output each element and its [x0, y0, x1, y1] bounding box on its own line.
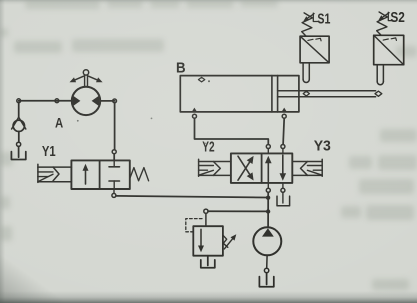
Y1 left box flow arrow [85, 168, 87, 184]
relief valve pilot port [204, 209, 208, 213]
cylinder vent diamond [198, 77, 204, 82]
node Y1 top port [112, 150, 116, 154]
Y1 right box blocked port top [113, 160, 115, 166]
node Y1 bottom port [112, 193, 116, 197]
tank symbol [277, 196, 290, 206]
wire [266, 273, 268, 285]
port node [266, 188, 270, 192]
wire pump riser [267, 192, 269, 227]
node [17, 142, 21, 146]
piston rod [278, 90, 376, 92]
check valve [12, 117, 19, 129]
wire [114, 103, 116, 150]
solenoid Y3 [321, 159, 323, 176]
junction [266, 196, 270, 200]
wire [207, 256, 209, 266]
right box up arrow [267, 161, 269, 181]
tank symbol [201, 260, 215, 268]
rod cam 1 [303, 91, 309, 96]
wire [113, 154, 115, 161]
wire [282, 192, 284, 203]
motor shaft [84, 75, 86, 87]
solenoid Y1 [37, 164, 39, 182]
Y1 right box blocked port bottom [109, 180, 120, 182]
junction [266, 209, 270, 213]
wire [100, 100, 114, 102]
speck [208, 80, 210, 82]
svg-text:Y3: Y3 [314, 137, 331, 154]
pump [253, 227, 281, 255]
pressure relief valve body [193, 226, 223, 256]
wire cylinder right port to valve [283, 118, 284, 144]
relief valve adjust arrow [224, 237, 234, 249]
S2 plunger [376, 65, 378, 82]
wire [205, 213, 207, 226]
wire [19, 100, 72, 102]
S1 spring [302, 13, 313, 36]
wire [113, 189, 115, 193]
node [264, 268, 268, 272]
relief valve pilot dashed line [186, 219, 204, 232]
svg-text:Y2: Y2 [202, 139, 214, 156]
wire [18, 146, 20, 157]
cylinder piston [271, 76, 273, 112]
valve Y2-Y3 body [231, 153, 292, 183]
S1 actuation arrow [306, 14, 314, 20]
cylinder B body [180, 76, 299, 112]
cylinder left port [192, 108, 198, 113]
wire supply line to junction [116, 196, 266, 198]
svg-text:S1: S1 [317, 10, 330, 27]
svg-text:B: B [176, 59, 186, 76]
valve Y1 body [71, 160, 129, 189]
limit switch S1 body [300, 36, 329, 63]
right box down arrow [282, 155, 284, 175]
solenoid Y2 [198, 159, 200, 176]
port node [281, 145, 285, 149]
relief valve spring [223, 235, 228, 247]
limit switch S2 body [374, 35, 404, 64]
node [17, 99, 21, 103]
node [55, 99, 59, 103]
left box crossed arrows [238, 156, 251, 177]
wire cylinder left port to valve [195, 118, 269, 144]
port node [266, 145, 270, 149]
svg-text:A: A [55, 115, 63, 130]
svg-text:Y1: Y1 [42, 143, 56, 160]
cylinder right port [281, 108, 287, 113]
tank symbol [259, 277, 273, 287]
Y1 return spring [130, 168, 149, 181]
rotation arrow left [73, 76, 84, 81]
rotation arrow right [89, 76, 100, 81]
wire [18, 132, 20, 143]
valve port stubs top [267, 149, 269, 154]
wire [266, 255, 268, 268]
S1 plunger [302, 63, 304, 80]
S2 actuation arrow [381, 13, 389, 19]
wire pilot line [208, 210, 266, 212]
tank symbol [11, 152, 25, 160]
S2 spring [377, 12, 388, 35]
node [113, 99, 117, 103]
hydraulic motor A [72, 87, 100, 115]
valve port stubs bottom [267, 183, 269, 188]
relief valve flow arrow [200, 229, 202, 246]
port node [281, 188, 285, 192]
rod end cam 2 [375, 91, 382, 96]
wire [18, 103, 20, 118]
svg-text:S2: S2 [390, 10, 405, 26]
